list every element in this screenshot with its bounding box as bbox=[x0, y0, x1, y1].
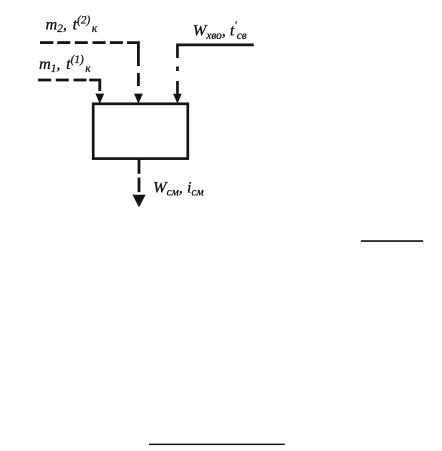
svg-text:Wхво, t′св: Wхво, t′св bbox=[193, 20, 247, 41]
wire m1 horizontal dashed bbox=[38, 79, 101, 91]
rule fragment bottom bbox=[149, 444, 285, 446]
wire Wsm outlet solid bbox=[138, 159, 141, 174]
wire m2 vertical dashed bbox=[137, 73, 140, 86]
label Wxvo t'sv bbox=[193, 20, 247, 41]
label m2 t(2)k bbox=[46, 14, 98, 35]
label m1 t(1)k bbox=[39, 54, 91, 75]
svg-text:Wсм, iсм: Wсм, iсм bbox=[153, 177, 204, 198]
arrowhead m1 into mixer bbox=[95, 94, 104, 104]
label Wsm ism bbox=[153, 177, 204, 198]
svg-text:m2, t(2)к: m2, t(2)к bbox=[46, 14, 98, 35]
mixer box bbox=[93, 104, 188, 159]
arrowhead m2 into mixer bbox=[134, 94, 143, 104]
wire m2 horizontal dashed bbox=[40, 41, 140, 66]
arrowhead Wsm outlet bbox=[132, 195, 145, 208]
wire Wsm outlet dash bbox=[138, 178, 141, 193]
arrowhead Wxvo into mixer bbox=[173, 94, 182, 104]
wire Wxvo horizontal solid bbox=[176, 44, 254, 59]
svg-text:m1, t(1)к: m1, t(1)к bbox=[39, 54, 91, 75]
wire Wxvo vertical dash-dot bbox=[176, 67, 179, 95]
rule fragment right bbox=[361, 240, 423, 242]
